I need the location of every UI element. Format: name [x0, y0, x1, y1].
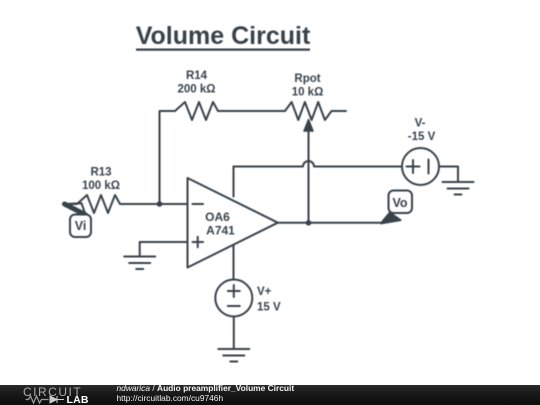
junction dot inverting input node	[157, 201, 163, 207]
label R14 value	[178, 70, 216, 96]
node Vo flag	[381, 191, 412, 224]
title	[136, 22, 311, 50]
wire V+ to ground	[233, 317, 235, 350]
wire output	[278, 222, 384, 224]
svg-text:15 V: 15 V	[257, 302, 281, 314]
wire V- to ground	[439, 167, 458, 183]
wire supply to V- with hop over wiper	[234, 161, 403, 167]
resistor R14	[160, 102, 219, 120]
op-amp OA6	[188, 178, 278, 268]
wire R14 to Rpot	[218, 110, 285, 112]
svg-text:Volume Circuit: Volume Circuit	[136, 22, 311, 50]
svg-text:R13: R13	[90, 167, 111, 179]
svg-text:Vi: Vi	[75, 219, 87, 233]
label V- value	[408, 118, 436, 144]
voltage source V+	[215, 280, 252, 317]
wire op-amp top supply pin	[233, 167, 235, 197]
svg-text:100 kΩ: 100 kΩ	[82, 180, 120, 192]
wire op-amp bottom supply pin	[233, 246, 235, 280]
node Vi flag	[65, 203, 92, 237]
svg-text:R14: R14	[186, 70, 208, 82]
potentiometer Rpot	[285, 102, 346, 223]
svg-text:A741: A741	[206, 224, 235, 238]
wire feedback left vertical	[159, 112, 161, 204]
svg-text:Rpot: Rpot	[294, 73, 320, 85]
svg-text:200 kΩ: 200 kΩ	[178, 84, 216, 96]
junction dot output node	[306, 220, 312, 226]
resistor R13	[66, 195, 188, 213]
label R13 value	[82, 167, 120, 193]
ground at V-	[443, 182, 474, 195]
svg-text:V-: V-	[415, 118, 426, 130]
ground at non-inverting input	[124, 257, 155, 270]
svg-text:LAB: LAB	[67, 394, 89, 405]
wire non-inverting input to ground	[140, 242, 188, 257]
footer attribution text	[117, 384, 295, 402]
label V+ value	[257, 286, 281, 314]
svg-text:V+: V+	[257, 286, 272, 298]
label Rpot value	[292, 73, 324, 99]
svg-text:10 kΩ: 10 kΩ	[292, 87, 324, 99]
ground at V+	[218, 349, 249, 362]
footer CircuitLab logo	[0, 385, 120, 405]
svg-text:-15 V: -15 V	[408, 131, 436, 143]
footer bar	[0, 385, 540, 405]
label op-amp name	[205, 210, 235, 238]
svg-text:OA6: OA6	[205, 210, 230, 224]
voltage source V-	[402, 148, 439, 185]
svg-text:Vo: Vo	[392, 196, 407, 210]
